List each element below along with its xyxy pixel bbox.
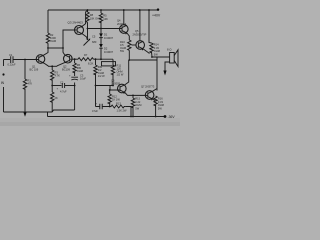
node emitter bar center [51,65,53,67]
resistor R5 10K [100,10,102,13]
node bar left [95,85,97,87]
wire R12 bottom [109,103,111,107]
wire ground bus left [4,111,53,113]
node lower 0.33 tap [132,95,134,97]
resistor R2 100K [46,33,49,43]
wire R4 bottom to bus jog [51,101,53,112]
node input bias junction [24,59,26,61]
node C2 left [51,85,53,87]
node Q1 collector junction [47,47,49,49]
svg-text:1/2 W: 1/2 W [98,74,105,78]
speaker SPK 8ohm [170,50,178,67]
bottom darker band [0,118,180,122]
svg-text:1K 1W: 1K 1W [112,98,120,102]
diode D1 1N4007 [100,32,102,34]
transistor Q5 2N3055 [136,41,145,51]
svg-text:1N4007: 1N4007 [104,36,114,40]
wire bias bus y28.5 [88,28,120,30]
svg-text:2N3055: 2N3055 [111,82,121,86]
wire R9 bottom [95,74,97,86]
node R12 bottom [109,106,111,108]
node output [151,56,153,58]
wire C2 right lead [65,85,75,87]
resistor R10 0.5 5W [128,40,131,50]
resistor R6 680 [73,63,76,73]
node C3 column joint [74,85,76,87]
node R16 rail [155,116,157,118]
node R8 bottom junction [87,28,89,30]
wire bottom rail [48,116,166,118]
svg-text:R8: R8 [90,13,94,17]
wire bias drop to R1 [24,60,26,80]
wire R5 to bias bus [100,21,102,33]
wire Q4 emitter [127,33,129,40]
transistor Q7 2N3773 [145,91,154,101]
svg-text:10K: 10K [103,17,108,21]
resistor R1 100K [23,79,26,89]
capacitor C4 47uF [96,104,110,109]
svg-text:0.22uF: 0.22uF [8,63,16,67]
capacitor C3 4.7uF polarized [71,77,78,80]
wire Q2 collector [63,48,65,55]
svg-text:4.7K: 4.7K [55,74,61,78]
wire R10 bottom to output [128,50,130,60]
svg-text:8.2K: 8.2K [88,62,94,66]
wire C1 to Q1 base [13,59,36,61]
wire R15 bottom to rail [132,107,134,117]
trimmer VR1 arrow [84,40,90,46]
svg-text:-36V: -36V [168,115,176,119]
wire output to speaker [152,56,170,58]
wire rail left hook [48,112,53,117]
wire bus jog to C3 return [52,110,74,112]
ground arrow at R1 [24,113,27,117]
wire Q5 collector to rail [139,10,141,41]
node rail Q5 [139,9,141,11]
node R15 rail [132,116,134,118]
svg-text:47K: 47K [28,82,33,86]
wire R2 bottom to collector node [47,43,49,48]
wire Q7 emitter to R16 [153,99,156,101]
node +40V terminal dot [157,8,160,11]
wire Q3 base riser [63,30,75,48]
wire Q6 collector up to output line [125,60,129,85]
svg-text:5W: 5W [135,106,139,110]
wire emitter bar [48,65,57,67]
wire Q2 emitter [57,63,64,67]
wire driver bar [96,85,114,87]
wire R14 bottom to output node [151,52,154,57]
svg-text:5W: 5W [120,49,124,53]
svg-text:680: 680 [92,40,97,44]
diode D2 1N4007 [99,44,103,48]
node rail R5 [100,9,102,11]
wire left drop from rail to R2 [47,10,49,33]
resistor R12 1K 1W [109,90,111,94]
wire input shield drop [3,87,5,112]
wire R16 bottom to rail [155,105,157,117]
wire Q4 collector to rail [123,10,125,25]
transistor Q1 BC109 [36,55,45,64]
node R9 top [95,58,97,60]
resistor R14 0.33 5W [150,43,153,53]
ground arrow speaker [163,71,166,76]
wire output drop [156,57,158,91]
svg-text:8 Ω: 8 Ω [167,48,171,52]
node feedback/base [74,58,76,60]
component box under feedback line [102,62,116,66]
svg-text:BC 109: BC 109 [30,68,39,72]
wire C3 return drop [74,83,76,111]
node output mid [128,59,130,61]
input terminal IN [3,60,5,67]
svg-text:1/2 W: 1/2 W [117,73,124,77]
capacitor C1 0.22uF [11,56,13,63]
wire R6 to C3 [74,72,76,76]
wire Q1 collector [44,48,48,55]
wire Q6 emitter to Q7 base [125,93,145,96]
node R12 top [109,89,111,91]
svg-text:2K: 2K [55,96,58,100]
wire rail drop right [149,10,152,43]
node bar right [112,85,114,87]
wire C2 left lead [52,85,61,87]
wire R7 to diode column [93,58,113,60]
node -36V terminal [164,115,167,118]
svg-text:4.7uF: 4.7uF [60,90,67,94]
wire R4 top [51,86,53,93]
wire R11 bottom [112,74,114,86]
resistor R7 8.2K feedback [78,58,93,61]
svg-text:Q7 2N3773: Q7 2N3773 [141,85,155,89]
resistor R3 1K [51,70,54,80]
capacitor C2 [62,83,64,88]
transistor Q3 2N4403 [75,26,84,35]
transistor Q6 [118,84,127,94]
svg-text:C1: C1 [9,53,13,57]
node R5 bottom junction [100,28,102,30]
wire bar left drop [95,86,97,107]
wire output line mid [129,59,157,61]
wire Q5 base stub [132,44,136,46]
resistor R15 0.33 5W lower-left [132,95,134,98]
svg-text:IN: IN [1,81,5,85]
wire R3 to C2 node [51,79,53,85]
resistor R11 120 [112,59,114,65]
node diode column bottom [100,58,102,60]
svg-text:Q3 2N4403: Q3 2N4403 [68,21,84,25]
svg-text:5W: 5W [158,106,162,110]
transistor Q2 BC109 [64,54,73,63]
wire Q5 emitter [143,49,149,54]
svg-text:R13: R13 [116,102,121,106]
svg-text:10uF: 10uF [80,77,86,81]
svg-text:C2: C2 [60,81,64,85]
transistor Q4 [120,25,129,35]
svg-text:BC109: BC109 [62,68,70,72]
node rail right [148,9,150,11]
wire Q7 collector [153,89,157,92]
wire R13 to rail [126,107,131,117]
resistor R13 1.5K 2W horizontal [110,105,126,108]
wire R8 bottom [87,22,89,28]
svg-text:OHM: OHM [77,69,83,73]
svg-text:2N3054: 2N3054 [117,22,127,26]
wire bar to R3 [51,66,53,70]
svg-text:5W: 5W [154,52,158,56]
svg-text:1.5K 2W: 1.5K 2W [117,109,127,113]
svg-text:OHM: OHM [50,39,56,43]
wire input line [4,59,11,61]
node Q2 collector junction [62,47,64,49]
wire top rail [48,9,158,11]
wire Q3 collector [82,34,87,40]
wire base drop to R6 [74,59,76,63]
svg-text:47uF: 47uF [92,109,98,113]
resistor R8 10K top [87,10,89,12]
resistor R9 680 [95,59,97,65]
wire Q1 emitter [44,63,48,66]
svg-text:1N4007: 1N4007 [104,50,114,54]
svg-text:C5: C5 [92,35,96,39]
svg-text:D2: D2 [104,47,108,51]
node R13 rail joint [130,116,132,118]
wire Q3 emitter to rail [82,10,87,26]
node rail Q4 [123,9,125,11]
wire R1 bottom to ground bus [24,89,26,113]
wire bar jog to Q6 base [110,86,118,91]
resistor R4 2K [51,92,54,102]
node rail R8 [87,9,89,11]
wire Q2 base to feedback node [72,58,78,60]
resistor R16 0.33 5W lower-right [154,96,157,106]
svg-text:+40V: +40V [152,14,161,18]
svg-text:R7: R7 [84,53,88,57]
wire collector bus y48 [48,47,63,49]
wire speaker return [165,62,170,71]
